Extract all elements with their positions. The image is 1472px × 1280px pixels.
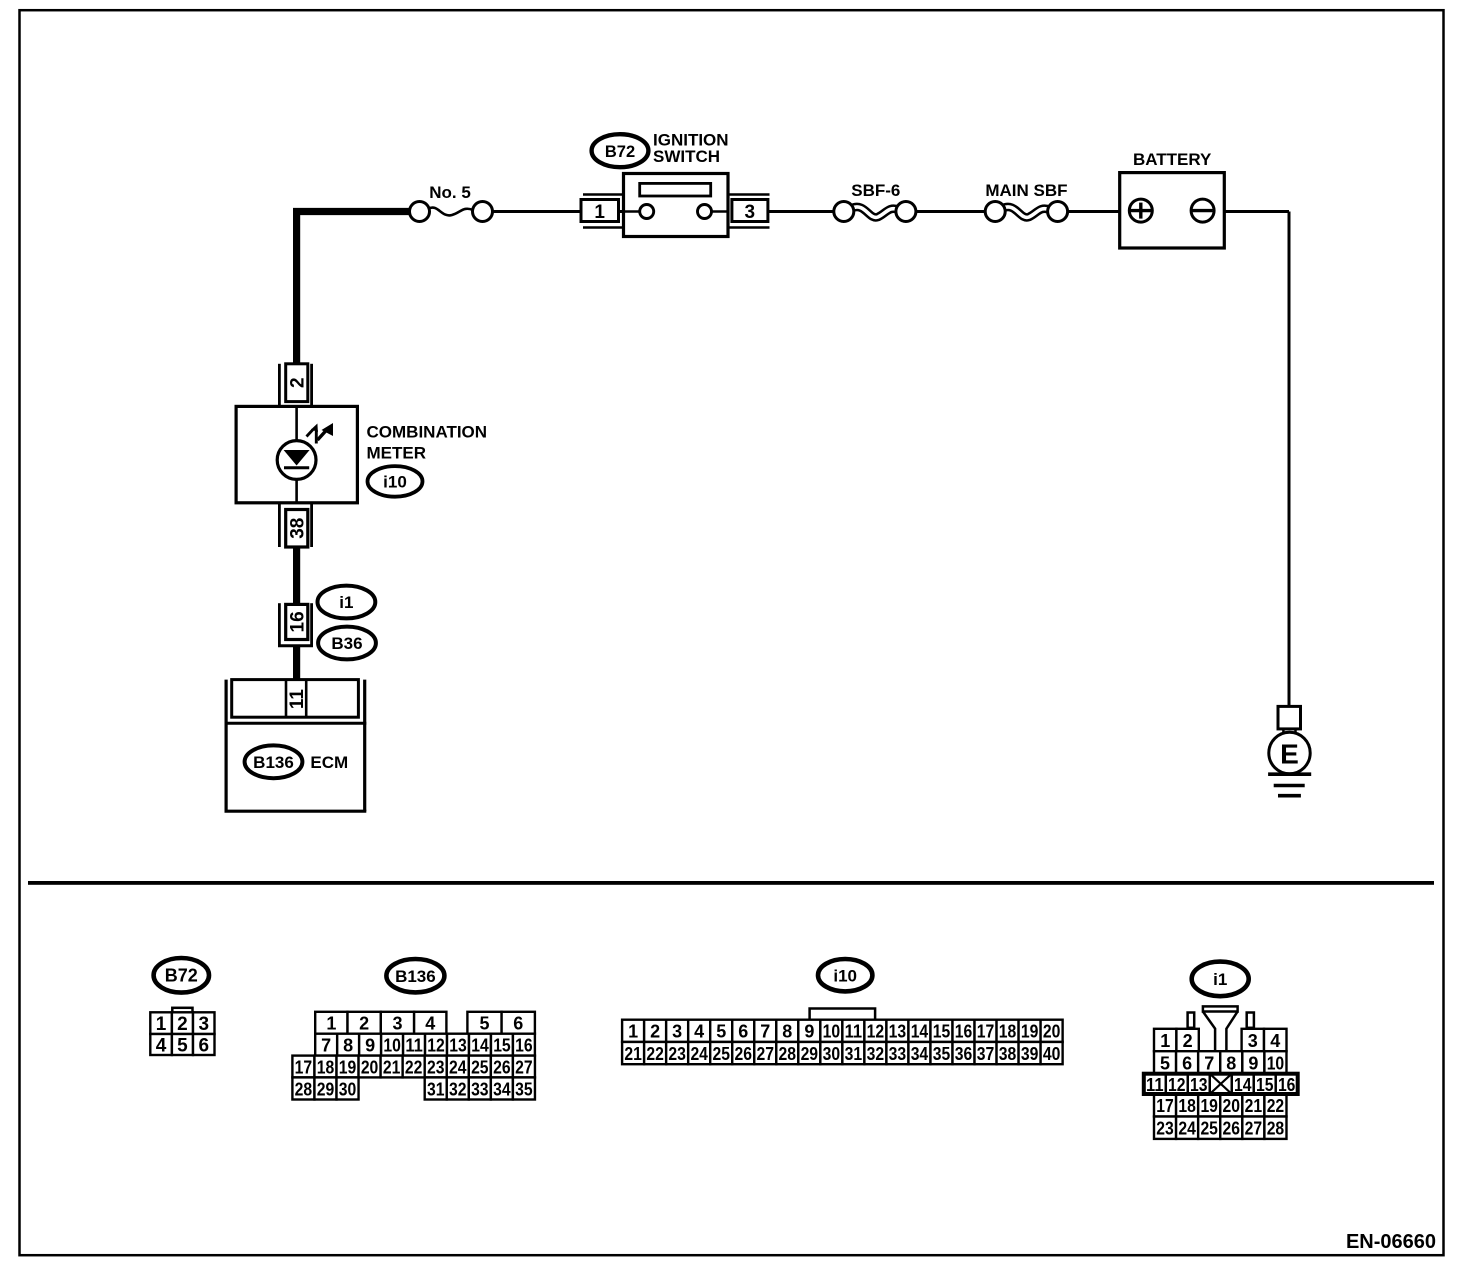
svg-text:E: E	[1280, 738, 1299, 769]
svg-text:23: 23	[1156, 1119, 1174, 1139]
svg-text:6: 6	[738, 1022, 748, 1042]
svg-text:2: 2	[359, 1014, 369, 1034]
svg-text:16: 16	[955, 1022, 973, 1042]
svg-text:24: 24	[449, 1057, 467, 1077]
svg-text:36: 36	[955, 1044, 973, 1064]
svg-text:2: 2	[177, 1014, 188, 1035]
svg-text:21: 21	[1245, 1096, 1263, 1116]
svg-text:13: 13	[449, 1036, 467, 1056]
svg-text:28: 28	[295, 1079, 313, 1099]
svg-text:31: 31	[845, 1044, 863, 1064]
svg-text:i1: i1	[1213, 970, 1227, 989]
svg-text:39: 39	[1021, 1044, 1039, 1064]
svg-text:19: 19	[1200, 1096, 1218, 1116]
svg-text:16: 16	[287, 611, 308, 632]
svg-text:1: 1	[326, 1014, 336, 1034]
svg-text:6: 6	[198, 1035, 209, 1056]
svg-text:20: 20	[1043, 1022, 1061, 1042]
svg-text:MAIN SBF: MAIN SBF	[985, 181, 1067, 200]
svg-text:1: 1	[156, 1014, 167, 1035]
svg-text:31: 31	[427, 1079, 445, 1099]
svg-text:2: 2	[650, 1022, 660, 1042]
svg-text:5: 5	[716, 1022, 726, 1042]
svg-text:26: 26	[734, 1044, 752, 1064]
svg-text:10: 10	[1267, 1053, 1285, 1073]
svg-text:ECM: ECM	[310, 753, 348, 772]
svg-text:24: 24	[1178, 1119, 1196, 1139]
svg-text:21: 21	[383, 1057, 401, 1077]
svg-text:26: 26	[1223, 1119, 1241, 1139]
svg-text:14: 14	[471, 1036, 489, 1056]
svg-text:9: 9	[365, 1036, 375, 1056]
svg-text:1: 1	[594, 202, 605, 223]
svg-text:30: 30	[339, 1079, 357, 1099]
svg-text:4: 4	[1270, 1031, 1280, 1051]
svg-text:3: 3	[745, 202, 756, 223]
svg-text:11: 11	[287, 689, 308, 710]
svg-text:i1: i1	[339, 593, 353, 612]
svg-text:34: 34	[911, 1044, 929, 1064]
svg-text:15: 15	[933, 1022, 951, 1042]
svg-text:12: 12	[427, 1036, 445, 1056]
svg-text:34: 34	[493, 1079, 511, 1099]
svg-text:B72: B72	[605, 143, 635, 161]
svg-text:3: 3	[672, 1022, 682, 1042]
svg-text:3: 3	[198, 1014, 209, 1035]
svg-text:16: 16	[515, 1036, 533, 1056]
svg-text:28: 28	[1267, 1119, 1285, 1139]
svg-text:1: 1	[628, 1022, 638, 1042]
svg-text:14: 14	[911, 1022, 929, 1042]
svg-text:2: 2	[1183, 1031, 1193, 1051]
svg-text:22: 22	[646, 1044, 664, 1064]
svg-text:8: 8	[343, 1036, 353, 1056]
svg-text:13: 13	[889, 1022, 907, 1042]
svg-text:14: 14	[1234, 1075, 1252, 1095]
svg-text:25: 25	[1200, 1119, 1218, 1139]
svg-text:No. 5: No. 5	[429, 183, 471, 202]
svg-text:20: 20	[361, 1057, 379, 1077]
svg-text:27: 27	[757, 1044, 775, 1064]
svg-text:4: 4	[694, 1022, 704, 1042]
svg-text:23: 23	[427, 1057, 445, 1077]
svg-text:15: 15	[1256, 1075, 1274, 1095]
svg-text:30: 30	[823, 1044, 841, 1064]
svg-text:1: 1	[1160, 1031, 1170, 1051]
svg-text:9: 9	[804, 1022, 814, 1042]
svg-text:B36: B36	[331, 634, 362, 653]
svg-text:11: 11	[1146, 1075, 1164, 1095]
svg-text:32: 32	[449, 1079, 467, 1099]
svg-text:B136: B136	[253, 753, 294, 772]
svg-text:19: 19	[1021, 1022, 1039, 1042]
svg-text:18: 18	[999, 1022, 1017, 1042]
svg-text:5: 5	[1160, 1053, 1170, 1073]
svg-text:11: 11	[405, 1036, 423, 1056]
svg-text:4: 4	[425, 1014, 435, 1034]
svg-text:29: 29	[801, 1044, 819, 1064]
svg-text:33: 33	[889, 1044, 907, 1064]
svg-text:29: 29	[317, 1079, 335, 1099]
svg-text:24: 24	[690, 1044, 708, 1064]
svg-text:7: 7	[1204, 1053, 1214, 1073]
svg-text:17: 17	[1156, 1096, 1174, 1116]
svg-text:3: 3	[1248, 1031, 1258, 1051]
svg-text:2: 2	[287, 377, 308, 388]
svg-text:35: 35	[515, 1079, 533, 1099]
svg-text:i10: i10	[383, 473, 407, 492]
svg-text:i10: i10	[833, 966, 857, 985]
svg-text:32: 32	[867, 1044, 885, 1064]
svg-text:38: 38	[999, 1044, 1017, 1064]
svg-text:COMBINATION: COMBINATION	[367, 422, 488, 441]
svg-text:33: 33	[471, 1079, 489, 1099]
svg-text:10: 10	[823, 1022, 841, 1042]
svg-text:7: 7	[760, 1022, 770, 1042]
svg-text:METER: METER	[367, 443, 427, 462]
svg-text:27: 27	[515, 1057, 533, 1077]
svg-text:27: 27	[1245, 1119, 1263, 1139]
svg-text:10: 10	[383, 1036, 401, 1056]
svg-text:13: 13	[1190, 1075, 1208, 1095]
svg-text:SWITCH: SWITCH	[653, 147, 720, 166]
svg-text:40: 40	[1043, 1044, 1061, 1064]
svg-text:22: 22	[1267, 1096, 1285, 1116]
svg-text:11: 11	[845, 1022, 863, 1042]
svg-text:18: 18	[1178, 1096, 1196, 1116]
svg-text:8: 8	[1226, 1053, 1236, 1073]
svg-text:4: 4	[156, 1035, 167, 1056]
svg-text:37: 37	[977, 1044, 995, 1064]
svg-text:25: 25	[712, 1044, 730, 1064]
svg-text:7: 7	[321, 1036, 331, 1056]
svg-text:26: 26	[493, 1057, 511, 1077]
svg-text:B136: B136	[395, 967, 436, 986]
svg-text:12: 12	[1168, 1075, 1186, 1095]
svg-text:9: 9	[1248, 1053, 1258, 1073]
svg-text:3: 3	[392, 1014, 402, 1034]
svg-text:SBF-6: SBF-6	[851, 181, 900, 200]
svg-text:5: 5	[177, 1035, 188, 1056]
svg-text:23: 23	[668, 1044, 686, 1064]
svg-text:17: 17	[295, 1057, 313, 1077]
svg-text:5: 5	[479, 1014, 489, 1034]
svg-text:EN-06660: EN-06660	[1346, 1231, 1436, 1253]
svg-text:19: 19	[339, 1057, 357, 1077]
svg-text:35: 35	[933, 1044, 951, 1064]
svg-text:28: 28	[779, 1044, 797, 1064]
svg-text:12: 12	[867, 1022, 885, 1042]
svg-text:B72: B72	[165, 966, 198, 986]
svg-text:6: 6	[513, 1014, 523, 1034]
svg-text:20: 20	[1223, 1096, 1241, 1116]
svg-text:8: 8	[782, 1022, 792, 1042]
svg-text:38: 38	[287, 518, 308, 539]
svg-text:21: 21	[624, 1044, 642, 1064]
svg-text:17: 17	[977, 1022, 995, 1042]
svg-text:25: 25	[471, 1057, 489, 1077]
svg-text:BATTERY: BATTERY	[1133, 150, 1212, 169]
svg-text:18: 18	[317, 1057, 335, 1077]
svg-text:6: 6	[1182, 1053, 1192, 1073]
svg-text:16: 16	[1278, 1075, 1296, 1095]
svg-text:15: 15	[493, 1036, 511, 1056]
svg-text:22: 22	[405, 1057, 423, 1077]
